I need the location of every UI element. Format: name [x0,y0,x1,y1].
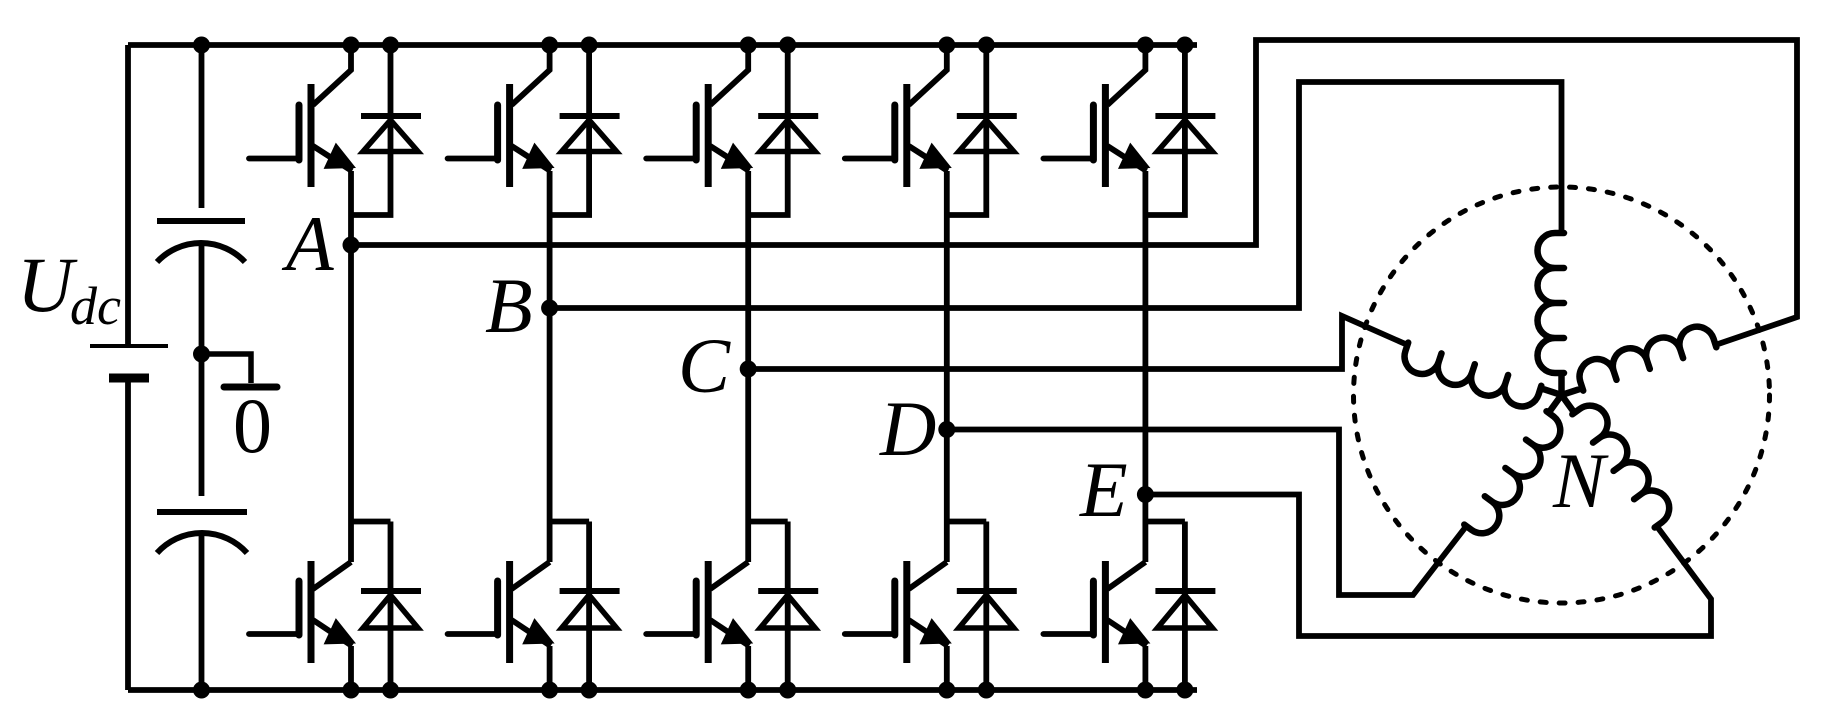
svg-text:A: A [281,200,334,287]
svg-text:N: N [1552,437,1609,524]
svg-text:0: 0 [233,382,272,469]
svg-text:B: B [485,262,533,349]
svg-text:E: E [1079,446,1128,533]
svg-text:D: D [879,385,936,472]
svg-text:C: C [678,322,731,409]
svg-text:U: U [17,241,78,328]
svg-text:dc: dc [70,276,121,336]
